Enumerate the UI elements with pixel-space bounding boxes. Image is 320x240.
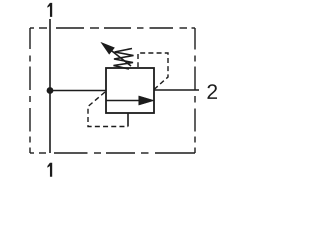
port label 2 [207,84,217,99]
wire: outlet line valve to port 2 [154,89,199,91]
port label 1 (bottom) [47,163,52,177]
enclosure dashed boundary box [30,28,195,153]
spring [114,49,134,70]
wire: inlet line node to valve [50,90,106,92]
node junction dot [47,87,54,94]
valve flow path arrow [106,96,154,105]
port label 1 (top) [47,3,52,17]
pilot drain stub (solid) below valve [127,113,129,127]
pilot line (dashed) outlet to spring box [138,53,168,90]
wire: vertical line port 1 to port 1 [49,19,51,153]
valve body square [106,68,154,113]
pilot line (dashed) inlet to drain loop [88,92,128,127]
adjustment arrow through spring [102,43,132,66]
